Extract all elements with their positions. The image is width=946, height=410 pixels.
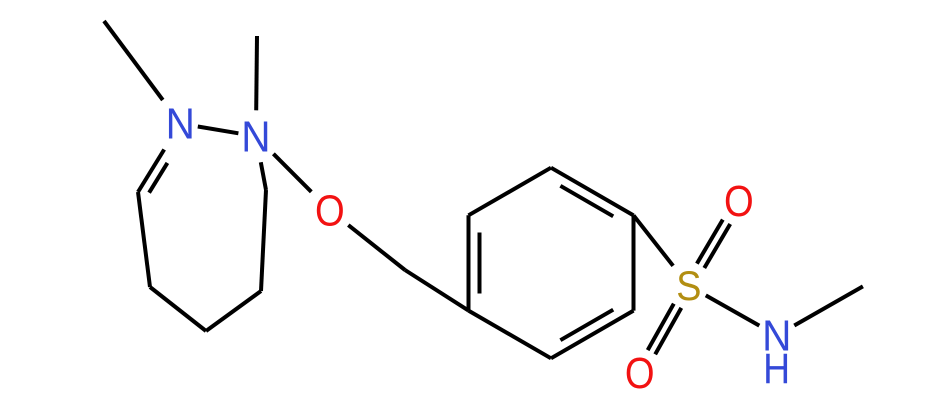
bond CH2-benzene bbox=[405, 270, 469, 311]
benzene edge LL-UL bbox=[467, 215, 471, 310]
bond CH3-N2 methyl bbox=[254, 36, 259, 110]
diazepane edge N1-A bbox=[138, 150, 164, 193]
svg-text:N: N bbox=[241, 112, 270, 161]
left ring inner double N1-A bbox=[149, 163, 167, 193]
bond N2-O bbox=[273, 154, 311, 192]
svg-text:H: H bbox=[763, 346, 790, 393]
bond S-N bbox=[706, 295, 760, 325]
diazepane edge E-N2 bbox=[261, 162, 266, 190]
svg-text:N: N bbox=[166, 100, 195, 149]
S=O top double bbox=[704, 224, 730, 268]
benzene inner double LR-B bbox=[560, 310, 613, 341]
S=O bottom double bbox=[655, 308, 681, 354]
benzene edge LR-B bbox=[551, 311, 634, 359]
bond CH3-N1 methyl bbox=[104, 21, 163, 100]
svg-text:O: O bbox=[315, 187, 345, 235]
benzene edge T-UR bbox=[551, 168, 634, 216]
S=O top double bbox=[697, 220, 723, 264]
benzene edge UL-T bbox=[469, 168, 552, 216]
svg-text:O: O bbox=[724, 178, 754, 226]
benzene edge UR-LR bbox=[632, 215, 636, 310]
bond O-CH2 bbox=[348, 225, 405, 270]
benzene edge B-LL bbox=[469, 311, 552, 359]
svg-text:O: O bbox=[625, 350, 655, 398]
benzene inner double T-UR bbox=[560, 186, 613, 217]
diazepane edge A-Bv bbox=[138, 192, 150, 287]
S=O bottom double bbox=[648, 304, 674, 350]
diazepane edge D-E bbox=[261, 190, 266, 291]
svg-text:S: S bbox=[676, 262, 701, 309]
bond N1-N2 bbox=[198, 127, 239, 134]
bond benzene-S bbox=[634, 215, 674, 265]
diazepane edge Bv-C bbox=[150, 287, 206, 331]
diazepane edge C-D bbox=[206, 291, 261, 331]
bond N-CH3 bbox=[794, 286, 863, 325]
benzene inner double LL-UL bbox=[478, 233, 482, 294]
